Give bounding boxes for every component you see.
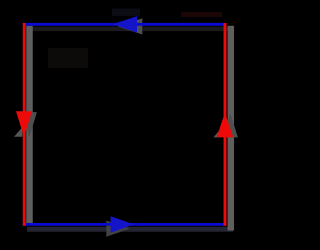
arrow left edge (red, points down) bbox=[16, 111, 32, 137]
ghost arrow bottom (right-pointing trail) bbox=[106, 221, 130, 237]
ghost square top edge (faint trail) bbox=[27, 27, 231, 32]
square top edge (blue wire) bbox=[23, 23, 227, 26]
square left edge (red wire) bbox=[23, 23, 26, 226]
square bottom edge (blue wire) bbox=[23, 223, 227, 226]
arrow bottom edge (blue, points right) bbox=[111, 216, 135, 232]
arrow right edge (red, points up) bbox=[217, 113, 233, 138]
faint artifact band top-right bbox=[181, 12, 222, 17]
ghost arrow left (down-pointing trail) bbox=[22, 112, 37, 137]
ghost square right edge bbox=[228, 26, 235, 231]
arrow top edge (blue, points left) bbox=[113, 16, 138, 32]
faint artifact halo above top arrow bbox=[112, 9, 140, 17]
ghost arrow left tip remnant bbox=[14, 127, 22, 137]
square right edge (red wire) bbox=[224, 23, 227, 226]
ghost arrow right base remnant bbox=[213, 128, 221, 138]
ghost square left edge bbox=[26, 26, 33, 224]
ghost arrow right (up-pointing trail) bbox=[223, 113, 238, 137]
ghost square bottom edge (faint trail) bbox=[27, 227, 233, 232]
ghost arrow top (left-pointing trail) bbox=[118, 18, 143, 34]
faint artifact blotch upper-left interior bbox=[48, 48, 88, 68]
